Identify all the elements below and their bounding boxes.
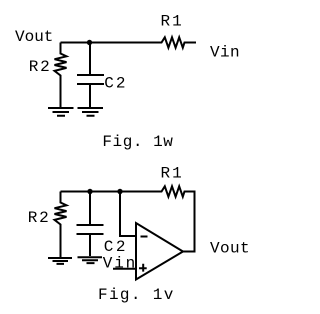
svg-text:Vout: Vout [210, 240, 250, 258]
svg-text:Fig. 1w: Fig. 1w [102, 133, 173, 151]
svg-text:Vout: Vout [15, 28, 53, 46]
svg-text:C2: C2 [104, 74, 127, 92]
svg-text:R2: R2 [28, 209, 51, 227]
svg-text:R1: R1 [161, 13, 184, 31]
svg-text:R1: R1 [161, 164, 184, 182]
svg-text:Vin: Vin [103, 255, 137, 273]
svg-text:Fig. 1v: Fig. 1v [98, 286, 175, 304]
svg-text:C2: C2 [104, 238, 128, 256]
svg-text:R2: R2 [29, 58, 52, 76]
svg-text:Vin: Vin [210, 44, 240, 62]
